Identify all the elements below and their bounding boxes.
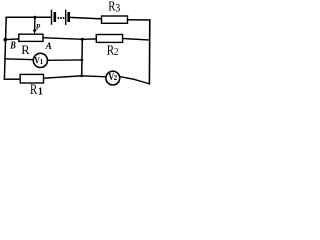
svg-text:A: A — [45, 42, 52, 52]
wiper arrow P — [34, 27, 36, 30]
svg-text:B: B — [9, 41, 15, 52]
svg-text:1: 1 — [38, 86, 43, 96]
wire wiper drop — [34, 17, 36, 27]
resistor R1 — [20, 74, 43, 83]
svg-text:R: R — [21, 43, 30, 57]
svg-text:1: 1 — [40, 59, 44, 66]
junction node middle top — [81, 38, 84, 41]
rheostat R box — [19, 34, 43, 41]
junction node bottom — [80, 74, 83, 77]
wire V1 row right — [48, 59, 82, 61]
voltmeter V1 — [33, 53, 47, 67]
wire R1 to junction — [44, 76, 82, 78]
svg-text:P: P — [36, 22, 41, 32]
wire R2 to right vertical — [123, 39, 150, 41]
wire V1 row left — [5, 58, 34, 61]
svg-text:2: 2 — [114, 75, 118, 82]
wire A from rheostat to R2 — [43, 38, 96, 40]
junction node V1 row — [81, 59, 84, 62]
svg-text:2: 2 — [114, 47, 119, 58]
wire left vertical — [4, 17, 6, 79]
junction node wiper top — [33, 16, 36, 19]
wire top left — [6, 16, 50, 18]
wire R3 to top right corner — [128, 19, 150, 21]
resistor R3 — [102, 16, 128, 23]
battery (multi-cell) — [52, 10, 69, 24]
wire R1 row left — [4, 78, 20, 80]
wire B to rheostat — [5, 38, 18, 41]
wire middle vertical — [81, 39, 84, 75]
wire battery to R3 — [70, 17, 102, 18]
wire V2 to bottom right corner — [120, 77, 150, 84]
resistor R2 — [96, 35, 122, 43]
wire junction to V2 — [82, 76, 106, 77]
wire right vertical — [148, 20, 150, 84]
junction node B row — [4, 38, 8, 42]
voltmeter V2 — [106, 71, 120, 85]
svg-text:R: R — [30, 82, 38, 96]
svg-text:3: 3 — [115, 1, 120, 15]
